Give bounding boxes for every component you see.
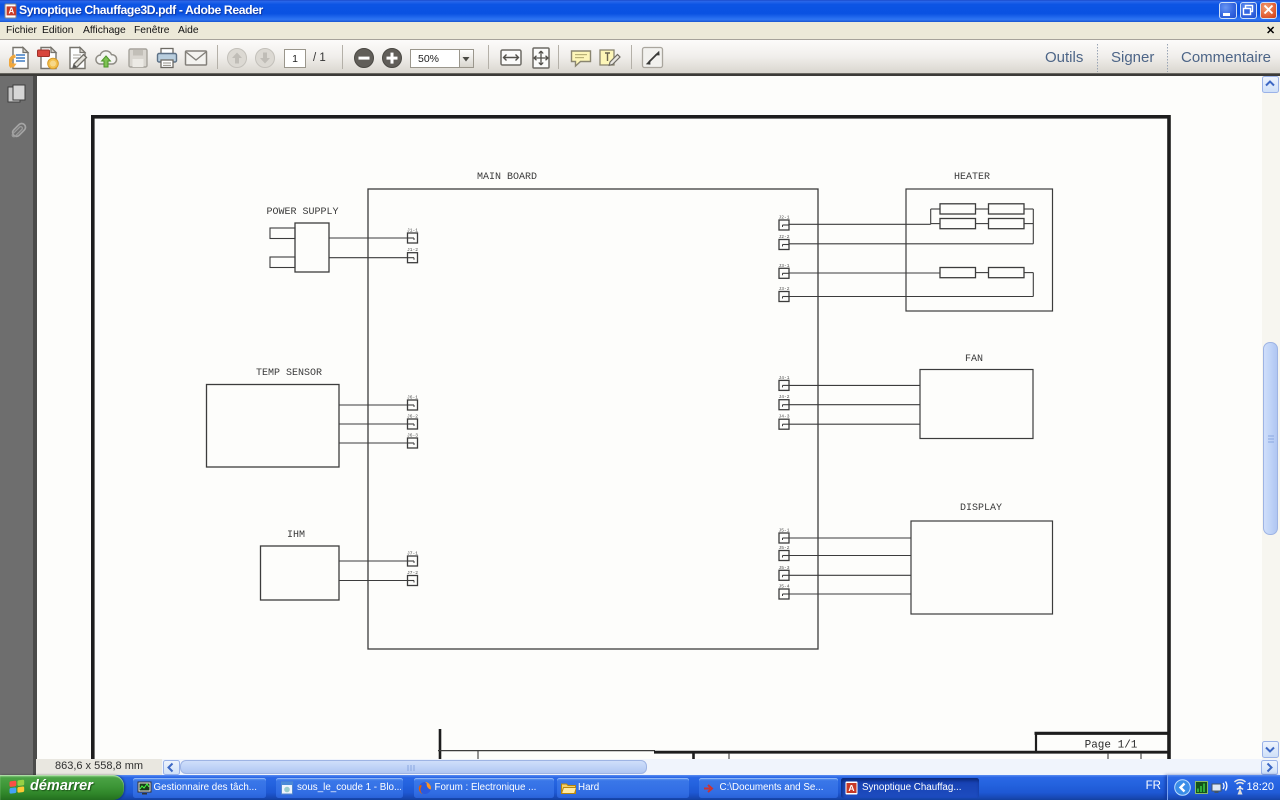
- svg-text:J7-2: J7-2: [407, 570, 418, 576]
- svg-text:POWER SUPPLY: POWER SUPPLY: [266, 207, 338, 218]
- svg-text:J4-1: J4-1: [778, 374, 789, 380]
- svg-text:J5-4: J5-4: [778, 583, 789, 589]
- svg-text:Page 1/1: Page 1/1: [1085, 739, 1138, 751]
- svg-text:J6-1: J6-1: [407, 394, 418, 400]
- svg-text:FAN: FAN: [965, 354, 983, 365]
- svg-text:J6-3: J6-3: [407, 432, 418, 438]
- svg-text:J2-2: J2-2: [778, 234, 789, 240]
- svg-text:J5-2: J5-2: [778, 545, 789, 551]
- svg-text:J1-1: J1-1: [407, 227, 418, 233]
- svg-text:J4-3: J4-3: [778, 413, 789, 419]
- svg-text:J6-2: J6-2: [407, 413, 418, 419]
- svg-text:A: A: [848, 783, 854, 793]
- svg-text:TEMP SENSOR: TEMP SENSOR: [256, 368, 322, 379]
- svg-text:J1-2: J1-2: [407, 247, 418, 253]
- svg-text:A: A: [9, 7, 15, 16]
- svg-text:J4-2: J4-2: [778, 394, 789, 400]
- svg-text:J7-1: J7-1: [407, 550, 418, 556]
- svg-text:J5-1: J5-1: [778, 527, 789, 533]
- svg-text:J5-3: J5-3: [778, 564, 789, 570]
- svg-text:MAIN BOARD: MAIN BOARD: [477, 172, 537, 183]
- svg-text:J3-2: J3-2: [778, 286, 789, 292]
- svg-text:J3-1: J3-1: [778, 262, 789, 268]
- svg-text:DISPLAY: DISPLAY: [960, 503, 1002, 514]
- svg-text:HEATER: HEATER: [954, 172, 990, 183]
- svg-text:J2-1: J2-1: [778, 214, 789, 220]
- svg-text:IHM: IHM: [287, 530, 305, 541]
